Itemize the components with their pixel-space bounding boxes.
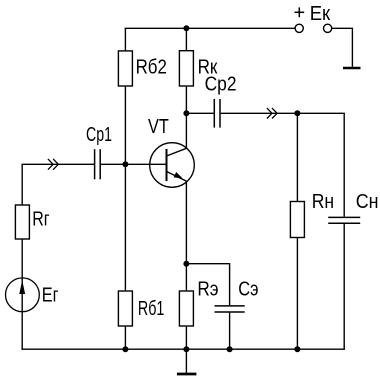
wire Cp1 to base (through base node) bbox=[101, 163, 166, 165]
wire Cn bottom stem bbox=[343, 224, 345, 349]
node collector junction bbox=[183, 110, 189, 116]
resistor R62 bbox=[118, 51, 132, 86]
wire Ce bottom stem bbox=[229, 313, 231, 350]
svg-text:Cр1: Cр1 bbox=[86, 124, 112, 146]
svg-text:Cр2: Cр2 bbox=[205, 73, 237, 95]
capacitor Cp1 bbox=[95, 149, 101, 179]
resistor R61 bbox=[118, 291, 132, 326]
node base junction bbox=[122, 161, 128, 167]
wire emitter down to Re top (through emitter node) bbox=[185, 181, 187, 291]
svg-text:Rб2: Rб2 bbox=[136, 57, 167, 79]
capacitor Ce bbox=[215, 306, 245, 312]
wire Rn bottom stem bbox=[296, 238, 298, 350]
capacitor Cn bbox=[328, 217, 360, 223]
transistor VT base bar bbox=[166, 149, 168, 181]
node rail Re bbox=[183, 346, 189, 352]
node rail Ce bbox=[227, 346, 233, 352]
svg-text:Rб1: Rб1 bbox=[138, 298, 165, 320]
node rail Rn bbox=[294, 346, 300, 352]
svg-text:VT: VT bbox=[148, 116, 169, 138]
resistor Re bbox=[179, 291, 193, 326]
node rail R61 bbox=[122, 346, 128, 352]
resistor Rg bbox=[15, 205, 29, 239]
resistor Rk bbox=[179, 51, 193, 86]
node output junction bbox=[294, 110, 300, 116]
wire R61 bottom stem bbox=[124, 326, 126, 349]
svg-text:Cн: Cн bbox=[356, 191, 379, 213]
ground (bottom) bbox=[177, 349, 197, 374]
svg-text:Eк: Eк bbox=[310, 3, 331, 25]
source Eg bbox=[6, 278, 40, 312]
wire emitter node to Ce branch bbox=[186, 264, 229, 306]
svg-text:Rн: Rн bbox=[312, 191, 334, 213]
wire Rk bottom to collector bbox=[185, 86, 187, 149]
wire R62 bottom to R61 top (through base node) bbox=[124, 86, 126, 291]
transistor VT bbox=[150, 143, 195, 188]
input arrow marker bbox=[48, 159, 58, 170]
source Eg arrow bbox=[19, 280, 25, 294]
transistor VT emitter lead bbox=[167, 172, 187, 182]
svg-text:Cэ: Cэ bbox=[238, 278, 258, 300]
wire top supply rail bbox=[125, 27, 296, 29]
node emitter junction bbox=[183, 261, 189, 267]
wire through Eg to bottom rail bbox=[21, 278, 23, 349]
wire R62 top stem bbox=[124, 28, 126, 51]
wire Ek terminal to ground bbox=[332, 28, 353, 67]
wire bottom common rail bbox=[21, 348, 345, 350]
terminal circle Ek bbox=[324, 24, 332, 32]
wire output node down to Rn bbox=[296, 113, 298, 201]
ground (supply) bbox=[343, 67, 361, 70]
output arrow marker bbox=[267, 108, 277, 118]
wire output node to Cn branch bbox=[297, 113, 344, 216]
label + bbox=[295, 7, 305, 17]
wire Rg bottom to Eg bbox=[21, 239, 23, 278]
terminal circle + bbox=[295, 24, 303, 32]
wire Re bottom stem bbox=[185, 326, 187, 349]
wire collector node to Cp2 bbox=[186, 112, 213, 114]
svg-text:Rг: Rг bbox=[32, 208, 49, 230]
svg-text:Eг: Eг bbox=[42, 285, 59, 307]
wire Cp2 to output node bbox=[221, 112, 298, 114]
svg-text:Rэ: Rэ bbox=[197, 278, 218, 300]
transistor VT emitter arrow bbox=[174, 172, 183, 178]
wire Rk top stem bbox=[185, 28, 187, 50]
capacitor Cp2 bbox=[214, 99, 220, 128]
wire input with corner bbox=[22, 164, 94, 205]
resistor Rn bbox=[290, 202, 304, 238]
node top rail junction bbox=[183, 25, 189, 31]
transistor VT collector lead bbox=[167, 148, 187, 156]
